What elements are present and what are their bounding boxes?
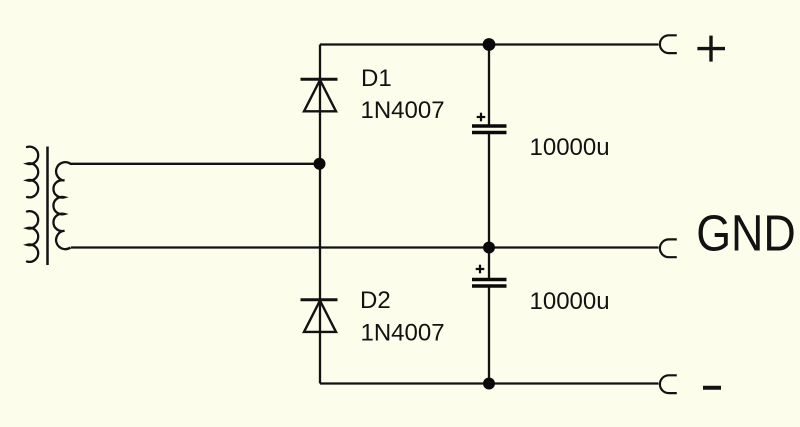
wire top rail [320, 43, 659, 45]
junction node GND rail / C1-C2 [483, 242, 495, 254]
diode D2 [301, 300, 338, 332]
terminal - connector [660, 375, 677, 393]
capacitor C1 polarity plus [477, 113, 486, 122]
terminal + connector [660, 35, 677, 53]
svg-text:1N4007: 1N4007 [361, 319, 445, 346]
transformer T1 secondary winding + wire to node A [53, 162, 320, 249]
junction node top rail / C1 [483, 38, 496, 51]
label + output symbol [697, 36, 725, 62]
svg-text:10000u: 10000u [530, 288, 610, 315]
junction node bottom rail / C2 [483, 378, 495, 390]
capacitor C2 polarity plus [476, 265, 485, 274]
wire capacitor branch upper [488, 45, 490, 125]
capacitor C1 plates [472, 126, 507, 133]
label - output symbol [703, 386, 721, 390]
wire bottom rail [320, 382, 659, 384]
wire vertical diode branch [319, 45, 321, 384]
svg-text:D1: D1 [361, 65, 392, 92]
svg-text:1N4007: 1N4007 [361, 97, 445, 124]
svg-text:D2: D2 [360, 287, 391, 314]
transformer T1 primary winding (left coil) [27, 147, 38, 262]
capacitor C2 plates [472, 280, 507, 287]
diode D1 [301, 79, 338, 111]
terminal GND connector [660, 239, 677, 257]
svg-text:10000u: 10000u [530, 134, 610, 161]
svg-text:GND: GND [696, 206, 796, 262]
junction node A (transformer top to diode branch) [314, 158, 326, 170]
wire capacitor branch lower [488, 248, 490, 279]
wire GND rail from transformer to GND terminal [71, 246, 659, 248]
transformer T1 core [46, 147, 49, 266]
